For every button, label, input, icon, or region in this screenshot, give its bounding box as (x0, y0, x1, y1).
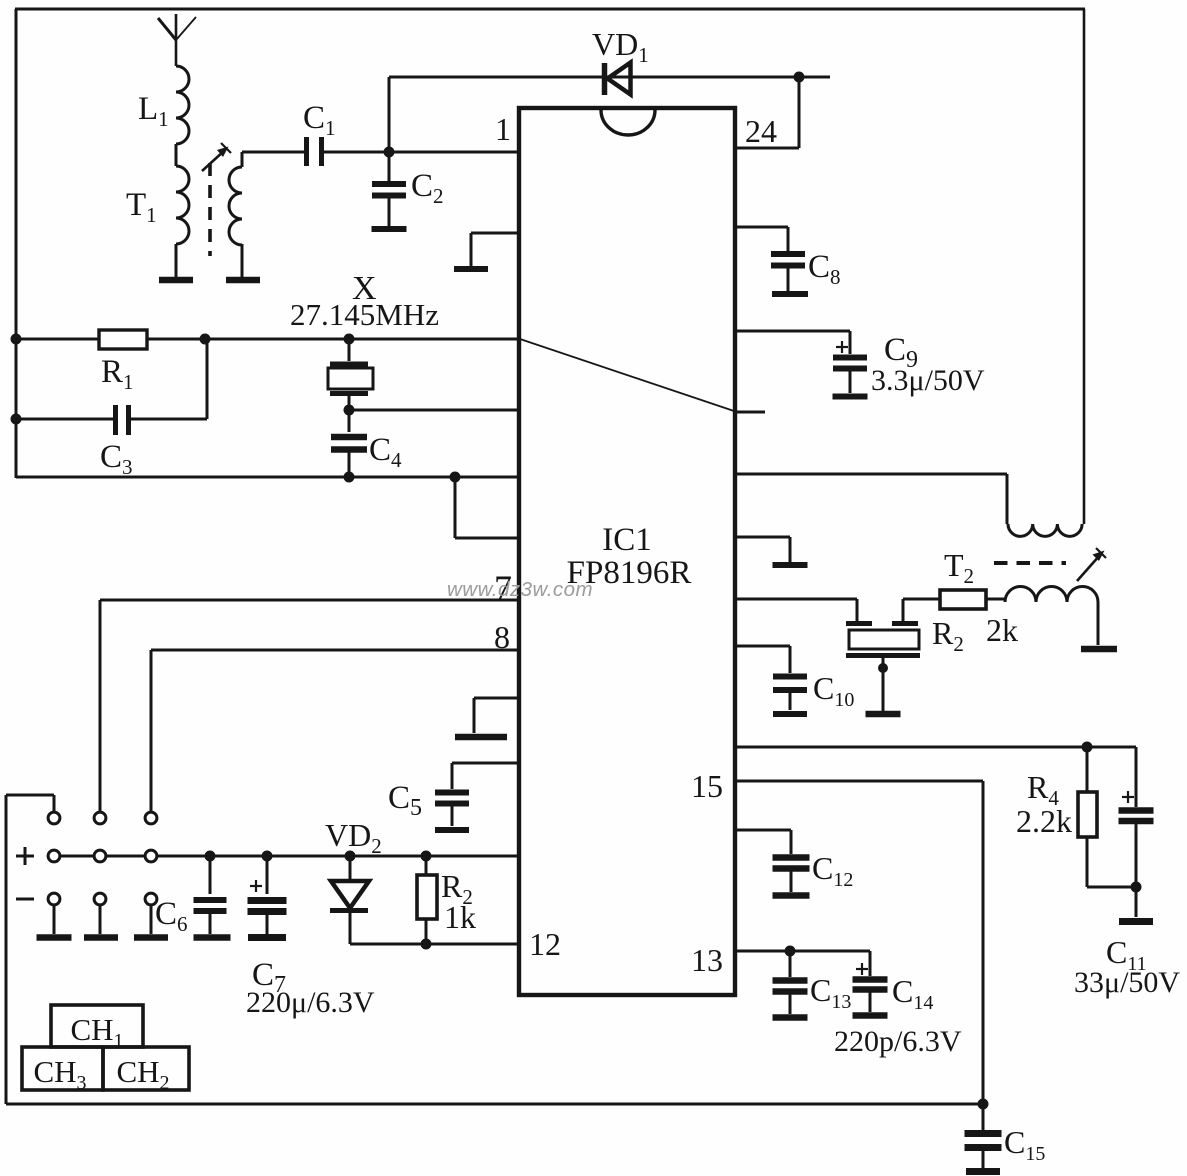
wire (324, 151, 389, 154)
ground near pin 8 (474, 697, 519, 700)
wire (175, 144, 178, 166)
node junction (1131, 882, 1142, 893)
node junction (421, 939, 432, 950)
wire left border (15, 9, 18, 478)
terminal (48, 850, 60, 862)
wire pin 15 (735, 780, 983, 783)
node A junction (384, 147, 395, 158)
ceramic filter bottom plate (846, 653, 920, 658)
wire pin 15 drop (982, 781, 985, 1104)
svg-text:220p/6.3V: 220p/6.3V (834, 1025, 962, 1058)
terminal (48, 893, 60, 905)
svg-text:www.dz3w.com: www.dz3w.com (447, 578, 593, 601)
svg-text:2k: 2k (986, 612, 1018, 648)
node junction (344, 405, 355, 416)
transformer T2 primary (1008, 524, 1082, 536)
node junction (262, 851, 273, 862)
wire pin 7 drop (99, 600, 102, 812)
capacitor C15 (982, 1104, 985, 1130)
node junction (344, 472, 355, 483)
svg-text:15: 15 (691, 768, 723, 804)
transformer T1 primary (176, 166, 189, 244)
ground (372, 226, 407, 232)
node junction (978, 1099, 989, 1110)
ground (1081, 646, 1117, 653)
wire (53, 905, 56, 934)
terminal (145, 812, 157, 824)
ceramic filter body (849, 630, 919, 649)
wire diagonal stub (735, 411, 765, 414)
wire right border (1083, 9, 1086, 524)
svg-text:13: 13 (691, 942, 723, 978)
diode VD1 (602, 63, 608, 95)
svg-text:33μ/50V: 33μ/50V (1074, 966, 1180, 999)
wire top VD1 rail (389, 76, 830, 79)
channel box CH3 (22, 1047, 103, 1090)
T2 adjust arrow (1077, 555, 1100, 581)
wire C3 rail (16, 418, 113, 421)
capacitor C8 (735, 226, 788, 229)
wire (150, 905, 153, 934)
resistor R2 2k (940, 590, 986, 609)
wire R1 rail (16, 338, 519, 341)
svg-text:27.145MHz: 27.145MHz (290, 297, 439, 332)
wire battery left (6, 794, 54, 797)
IC internal diagonal (520, 339, 734, 411)
node junction (421, 851, 432, 862)
ground (1119, 918, 1153, 925)
terminal (94, 893, 106, 905)
svg-text:12: 12 (529, 926, 561, 962)
transformer T2 core (994, 561, 1066, 565)
wire crystal to IC (349, 409, 519, 412)
terminal (145, 893, 157, 905)
terminal (94, 850, 106, 862)
capacitor C4 (348, 410, 351, 432)
channel box CH2 (103, 1047, 189, 1090)
terminal (145, 850, 157, 862)
wire jog to IC (454, 477, 457, 538)
ground near pin 18 (735, 536, 790, 539)
svg-text:2.2k: 2.2k (1016, 803, 1072, 839)
capacitor C1 (304, 137, 309, 166)
wire to T2 (735, 473, 1007, 476)
resistor R4 2.2k (1086, 747, 1089, 792)
wire (350, 943, 519, 946)
node junction (200, 334, 211, 345)
wire (99, 905, 102, 934)
wire (388, 77, 391, 152)
node junction (450, 472, 461, 483)
wire (241, 244, 244, 278)
wire pin 7 (100, 599, 519, 602)
wire Vcc to R4 (735, 746, 1136, 749)
wire top border (15, 8, 1085, 11)
minus terminal label (16, 898, 34, 901)
ceramic filter electrode (892, 621, 918, 626)
node junction (1082, 742, 1093, 753)
capacitor C3 (113, 405, 118, 435)
capacitor C5 (452, 762, 519, 765)
ground (866, 711, 901, 718)
node junction (785, 946, 796, 957)
ground near pin 2 (471, 232, 519, 235)
wire (175, 244, 178, 278)
node junction (11, 334, 22, 345)
ceramic filter electrode (846, 621, 872, 626)
transformer T2 secondary (1005, 586, 1098, 602)
node junction (11, 414, 22, 425)
terminal (48, 812, 60, 824)
wire pin24 link (798, 77, 801, 148)
wire bottom ground rail (6, 1103, 983, 1106)
resistor R2 1k (425, 856, 428, 875)
wire pin 8 (151, 649, 519, 652)
IC notch (601, 110, 655, 135)
wire (986, 598, 1005, 601)
antenna (175, 14, 178, 66)
transformer T1 core (208, 163, 212, 256)
node B junction (794, 72, 805, 83)
wire (389, 151, 519, 154)
ground (226, 277, 260, 284)
wire pin 13 (735, 950, 870, 953)
wire pin 8 drop (150, 650, 153, 812)
capacitor C12 (735, 829, 791, 832)
svg-text:1: 1 (495, 111, 511, 147)
ground (84, 934, 118, 941)
ground (37, 934, 72, 941)
T1 adjust arrow (202, 150, 225, 171)
capacitor C9 (735, 330, 850, 333)
IC U1 FP8196R body (519, 108, 735, 995)
crystal X (348, 339, 351, 361)
capacitor C14 (869, 951, 872, 976)
wire (882, 658, 885, 711)
inductor L1 (176, 66, 189, 144)
wire resonator (735, 598, 857, 601)
wire (241, 152, 244, 167)
wire plus rail (60, 855, 94, 858)
plus terminal label (16, 855, 34, 858)
wire (1097, 602, 1100, 645)
svg-text:8: 8 (494, 619, 510, 655)
ground (159, 277, 193, 284)
resistor R1 (99, 330, 147, 349)
channel box CH1 (51, 1005, 143, 1047)
svg-text:3.3μ/50V: 3.3μ/50V (871, 364, 985, 397)
transformer T1 secondary (229, 167, 242, 245)
capacitor C2 (388, 152, 391, 181)
capacitor C11 (1135, 747, 1138, 807)
node junction (878, 663, 888, 673)
svg-text:IC1: IC1 (602, 522, 652, 558)
svg-text:220μ/6.3V: 220μ/6.3V (246, 986, 375, 1019)
terminal (94, 812, 106, 824)
capacitor C10 (735, 645, 790, 648)
node junction (344, 334, 355, 345)
capacitor C13 (789, 951, 792, 977)
svg-text:1k: 1k (444, 899, 476, 935)
wire long left rail (16, 476, 519, 479)
capacitor C6 (209, 856, 212, 894)
svg-text:24: 24 (745, 113, 777, 149)
node junction (205, 851, 216, 862)
ground (134, 934, 168, 941)
capacitor C7 (266, 856, 269, 894)
